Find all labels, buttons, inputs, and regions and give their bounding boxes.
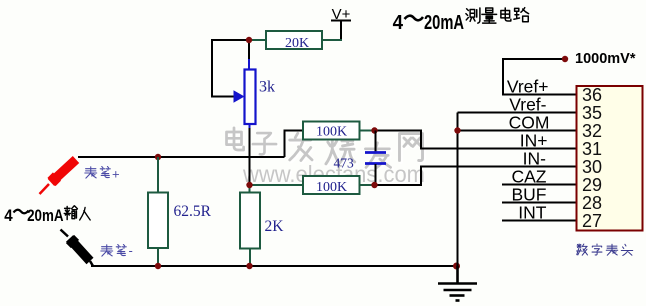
label 4~20mA input bbox=[4, 206, 90, 225]
svg-text:32: 32 bbox=[582, 121, 602, 141]
svg-text:62.5R: 62.5R bbox=[174, 203, 212, 220]
svg-text:20mA: 20mA bbox=[27, 206, 63, 225]
svg-text:BUF: BUF bbox=[512, 185, 547, 205]
title 4~20mA measurement circuit bbox=[393, 8, 529, 34]
svg-text:473: 473 bbox=[334, 156, 355, 171]
wire common/ground vertical bbox=[457, 113, 459, 267]
watermark bbox=[227, 128, 427, 189]
svg-text:31: 31 bbox=[582, 139, 602, 159]
svg-text:4: 4 bbox=[4, 206, 13, 225]
wire 100K bottom right lead bbox=[360, 184, 375, 186]
svg-text:INT: INT bbox=[518, 203, 547, 223]
svg-text:27: 27 bbox=[582, 211, 602, 231]
label digital meter head bbox=[577, 244, 633, 255]
node junction 2K top bbox=[246, 182, 252, 188]
pin wire COM bbox=[457, 130, 577, 132]
IC digital meter head U1 bbox=[577, 85, 643, 231]
svg-text:30: 30 bbox=[582, 157, 602, 177]
svg-text:IN+: IN+ bbox=[520, 131, 548, 151]
pin wire CAZ bbox=[502, 184, 576, 186]
svg-text:2K: 2K bbox=[265, 218, 285, 235]
capacitor 473 bbox=[334, 131, 387, 186]
node junction bus/ground bbox=[453, 263, 460, 270]
wire IN- node to bottom 100K bbox=[250, 184, 304, 186]
svg-text:36: 36 bbox=[582, 85, 602, 105]
wire 62.5R bottom lead bbox=[157, 248, 159, 266]
wire bus-up feed to top 100K bbox=[285, 131, 304, 158]
wire 100K top right lead bbox=[360, 130, 375, 132]
resistor 2K bbox=[240, 193, 284, 249]
pin wire INT bbox=[502, 220, 576, 222]
svg-text:IN-: IN- bbox=[523, 149, 547, 169]
node junction bus/62.5R bottom bbox=[155, 263, 161, 269]
node junction cap top bbox=[371, 127, 377, 133]
pin labels bbox=[507, 77, 550, 223]
node junction COM/ground bbox=[454, 127, 460, 133]
pin wire Vref- bbox=[458, 112, 577, 114]
potentiometer 3k bbox=[234, 70, 276, 125]
svg-text:35: 35 bbox=[582, 103, 602, 123]
svg-text:4: 4 bbox=[393, 12, 404, 34]
wire top bus bbox=[78, 156, 285, 158]
svg-text:20K: 20K bbox=[285, 36, 309, 51]
node junction bus/62.5R bbox=[155, 154, 161, 160]
svg-text:100K: 100K bbox=[316, 180, 347, 195]
svg-text:3k: 3k bbox=[259, 79, 275, 96]
black test probe bbox=[61, 230, 94, 267]
svg-text:20mA: 20mA bbox=[424, 12, 464, 34]
resistor 62.5R bbox=[148, 193, 212, 249]
wire 2K bottom lead bbox=[249, 249, 251, 267]
wire node to pot top bbox=[248, 40, 250, 59]
svg-text:Vref+: Vref+ bbox=[507, 77, 549, 97]
wire 20K left lead bbox=[249, 39, 266, 41]
wire bottom bus bbox=[91, 265, 458, 267]
wire 62.5R top lead bbox=[157, 157, 159, 193]
wire 20K right lead bbox=[322, 39, 342, 41]
resistor 100K bottom bbox=[303, 176, 360, 195]
wire pot bottom lead bbox=[249, 124, 251, 128]
svg-text:28: 28 bbox=[582, 193, 602, 213]
label biaobi- bbox=[101, 245, 126, 257]
svg-text:100K: 100K bbox=[316, 125, 347, 140]
power terminal V+ bbox=[331, 6, 351, 40]
wire feed to IN- bbox=[375, 167, 577, 186]
wire wiper L from node to pot arrow bbox=[212, 40, 249, 97]
svg-text:+: + bbox=[112, 167, 120, 182]
ground bbox=[438, 266, 477, 301]
label biaobi+ bbox=[85, 167, 110, 179]
svg-text:1000mV*: 1000mV* bbox=[575, 51, 636, 67]
svg-text:CAZ: CAZ bbox=[512, 167, 547, 187]
node junction 20K/pot bbox=[246, 37, 252, 43]
red test probe bbox=[40, 160, 77, 195]
svg-text:-: - bbox=[129, 243, 133, 258]
node junction cap bottom bbox=[371, 182, 377, 188]
wire feed to IN+ bbox=[375, 131, 577, 149]
node junction bus/2K bottom bbox=[246, 263, 252, 269]
resistor 100K top bbox=[303, 122, 360, 140]
svg-text:29: 29 bbox=[582, 175, 602, 195]
svg-text:Vref-: Vref- bbox=[509, 95, 546, 115]
pin wire Vref+ and 1000mV feed bbox=[503, 59, 576, 95]
resistor 20K bbox=[266, 31, 322, 51]
node endpoint 1000mV bbox=[562, 56, 568, 62]
pin wire BUF bbox=[502, 202, 576, 204]
svg-text:COM: COM bbox=[509, 113, 550, 133]
